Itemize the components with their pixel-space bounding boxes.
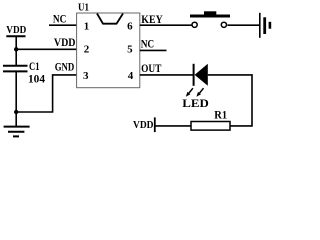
node junction VDD rail <box>14 47 18 51</box>
ground (right, rotated) <box>260 13 270 38</box>
wire switch to right ground <box>227 24 259 26</box>
ground (bottom left) <box>4 112 30 136</box>
power port VDD (bottom) <box>133 117 155 132</box>
svg-text:LED: LED <box>182 98 209 110</box>
IC U1 body <box>77 13 140 88</box>
svg-text:OUT: OUT <box>141 63 162 75</box>
wire NC stub pin 1 <box>49 24 77 26</box>
power flag VDD (top left) <box>6 25 26 36</box>
svg-text:VDD: VDD <box>133 120 154 131</box>
wire NC stub pin 5 <box>140 49 167 51</box>
wire R1 to VDD port <box>155 125 191 127</box>
wire GND pin 3 to ground junction <box>16 75 76 112</box>
LED diode <box>194 64 208 86</box>
svg-text:C1: C1 <box>29 61 40 73</box>
push button switch <box>190 11 230 27</box>
svg-text:1: 1 <box>84 20 90 32</box>
wire LED to R1 (right loop) <box>208 75 252 126</box>
svg-text:VDD: VDD <box>6 25 26 36</box>
svg-text:VDD: VDD <box>54 37 76 49</box>
LED arrow 1 <box>186 88 193 97</box>
svg-text:2: 2 <box>84 43 90 55</box>
svg-text:NC: NC <box>141 38 155 50</box>
wire VDD rail to pin 2 <box>16 48 76 50</box>
node ground junction <box>14 110 18 114</box>
resistor R1 <box>191 122 230 131</box>
svg-text:5: 5 <box>127 43 133 55</box>
wire C1 bottom to ground junction <box>15 71 17 112</box>
svg-text:3: 3 <box>83 70 89 82</box>
svg-text:NC: NC <box>53 14 67 26</box>
svg-text:6: 6 <box>127 20 133 32</box>
wire pin 4 to LED <box>140 74 193 76</box>
capacitor C1 <box>3 66 28 72</box>
wire VDD flag down to C1 top <box>15 36 17 65</box>
svg-text:R1: R1 <box>214 109 227 121</box>
svg-text:U1: U1 <box>78 1 89 13</box>
svg-text:4: 4 <box>128 70 134 82</box>
svg-text:104: 104 <box>28 74 45 86</box>
svg-text:GND: GND <box>55 62 75 74</box>
LED arrow 2 <box>196 88 203 97</box>
wire pin 6 to switch <box>140 24 192 26</box>
